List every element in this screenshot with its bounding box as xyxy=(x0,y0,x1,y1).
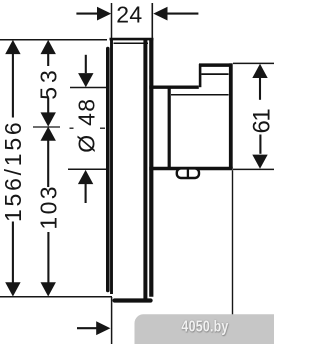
extension line 24 right vertical xyxy=(151,3,153,38)
dimension 103 xyxy=(47,141,49,284)
plate left edge outer xyxy=(106,49,110,291)
knob right edge xyxy=(229,63,233,168)
safety button divider xyxy=(187,170,189,178)
extension line 61 bottom xyxy=(233,168,274,170)
watermark bar xyxy=(135,314,275,344)
extension line handle top (y=87.5) xyxy=(70,87,108,89)
plate left edge inner xyxy=(110,38,113,294)
center tick at handle axis xyxy=(33,126,60,128)
dimension 61 xyxy=(259,78,261,154)
svg-text:61: 61 xyxy=(248,109,274,134)
dimension bottom arrow xyxy=(77,327,97,329)
svg-text:103: 103 xyxy=(36,184,62,230)
handle bottom edge xyxy=(149,167,232,170)
plate right edge outer xyxy=(143,39,147,299)
svg-text:Ø 48: Ø 48 xyxy=(73,98,99,153)
plate right edge inner xyxy=(149,38,153,297)
extension line top (plate top, y=39.8) xyxy=(0,39,107,41)
extension line knob edge down xyxy=(232,170,234,314)
knob cap top xyxy=(199,63,232,67)
dimension 53 xyxy=(47,54,49,113)
extension line bottom dim vertical xyxy=(111,297,113,344)
extension line bottom (plate bottom, y=296.7) xyxy=(0,296,112,298)
extension line handle bottom (y=169.3) xyxy=(68,168,108,170)
extension line 24 left vertical xyxy=(111,3,113,38)
svg-text:4050.by: 4050.by xyxy=(181,317,228,335)
handle sleeve top xyxy=(149,85,199,88)
handle sleeve front edge xyxy=(168,86,171,169)
knob body inner line xyxy=(171,94,229,96)
plate top edge xyxy=(110,38,154,41)
svg-text:24: 24 xyxy=(116,2,142,28)
knob cap left edge xyxy=(199,64,202,87)
plate bottom edge xyxy=(115,298,151,302)
dimension 156/156 xyxy=(12,54,14,284)
svg-text:156/156: 156/156 xyxy=(0,120,26,222)
svg-text:53: 53 xyxy=(35,66,61,100)
dimension diameter 48 xyxy=(85,55,87,203)
knob cap inner line xyxy=(201,73,228,75)
safety button slot xyxy=(177,168,199,178)
dimension 24 top xyxy=(76,13,198,15)
extension line 61 top xyxy=(233,62,274,64)
plate top inner line xyxy=(114,42,149,44)
